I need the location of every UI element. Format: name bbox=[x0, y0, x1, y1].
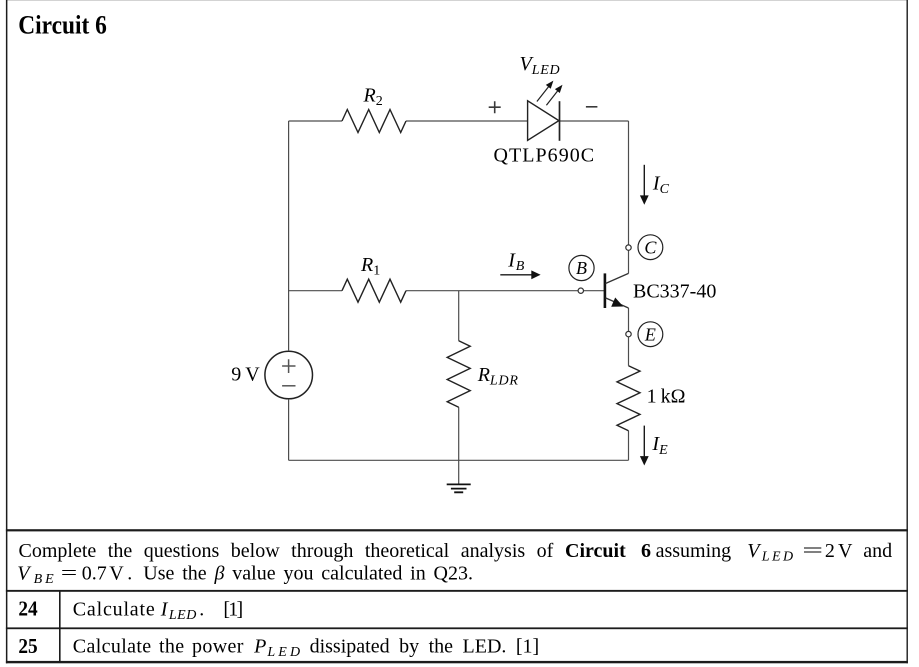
LED plus sign bbox=[489, 101, 501, 113]
wire E node to 1k resistor bbox=[628, 337, 630, 366]
svg-text:R1: R1 bbox=[360, 254, 380, 279]
wire 1k resistor to bottom rail bbox=[628, 431, 630, 461]
current arrow IC bbox=[643, 165, 645, 196]
wire bottom rail bbox=[289, 459, 629, 461]
svg-text:B: B bbox=[576, 258, 587, 278]
svg-text:Complete the questions below t: Complete the questions below through the… bbox=[19, 540, 554, 562]
svg-text:Circuit: Circuit bbox=[565, 540, 626, 562]
transistor emitter arrowhead bbox=[611, 298, 623, 307]
wire emitter to E node bbox=[628, 308, 630, 331]
wire base right of R1 bbox=[406, 290, 578, 292]
svg-text:IB: IB bbox=[507, 249, 524, 274]
wire top rail right of LED bbox=[560, 120, 629, 122]
table top border (faint) bbox=[6, 0, 907, 2]
svg-text:BC337-40: BC337-40 bbox=[633, 280, 716, 302]
svg-text:6: 6 bbox=[641, 540, 651, 562]
svg-text:25: 25 bbox=[18, 634, 37, 658]
LED light arrow 1 bbox=[537, 84, 551, 102]
voltage source V1 circle bbox=[265, 351, 313, 399]
wire collector node to transistor bbox=[628, 250, 630, 273]
table left border bbox=[6, 0, 8, 663]
node label E circled bbox=[638, 322, 663, 347]
svg-text:0.7: 0.7 bbox=[82, 563, 107, 585]
svg-text:VBE: VBE bbox=[17, 563, 57, 588]
svg-text:Circuit 6: Circuit 6 bbox=[18, 11, 107, 40]
svg-text:24: 24 bbox=[18, 596, 38, 620]
resistor R1 bbox=[342, 279, 406, 302]
resistor 1k bbox=[617, 366, 640, 431]
wire left rail upper bbox=[288, 121, 290, 350]
wire ground stub bbox=[458, 460, 460, 484]
LED cathode bar bbox=[559, 101, 561, 141]
svg-text:[1]: [1] bbox=[223, 599, 242, 621]
table rule above paragraph row bbox=[6, 529, 908, 531]
svg-text:QTLP690C: QTLP690C bbox=[494, 145, 595, 167]
svg-text:Calculate: Calculate bbox=[73, 599, 156, 621]
current arrow IB bbox=[500, 274, 532, 276]
wire RLDR branch upper bbox=[458, 291, 460, 341]
wire RLDR branch lower bbox=[458, 407, 460, 460]
current arrow IE bbox=[643, 426, 645, 457]
svg-text:=: = bbox=[61, 563, 78, 585]
svg-text:R2: R2 bbox=[363, 85, 383, 110]
LED light arrow 2 bbox=[546, 87, 560, 105]
node label B circled bbox=[569, 255, 594, 280]
voltage source plus sign bbox=[282, 359, 295, 373]
wire top rail right of R2 bbox=[406, 120, 528, 122]
svg-text:IC: IC bbox=[652, 173, 670, 198]
svg-text:9 V: 9 V bbox=[231, 364, 260, 386]
svg-text:.: . bbox=[199, 599, 204, 621]
svg-text:dissipated by the LED. [1]: dissipated by the LED. [1] bbox=[310, 636, 540, 658]
svg-text:2: 2 bbox=[825, 540, 835, 562]
svg-text:assuming: assuming bbox=[656, 540, 732, 562]
node pin circle E bbox=[626, 331, 631, 336]
wire base from left rail bbox=[289, 290, 342, 292]
svg-text:Use the β value you calculated: Use the β value you calculated in Q23. bbox=[143, 563, 473, 585]
svg-text:=: = bbox=[802, 540, 823, 562]
svg-text:ILED: ILED bbox=[160, 599, 197, 624]
transistor collector lead bbox=[606, 273, 629, 283]
svg-text:E: E bbox=[644, 324, 656, 344]
vertical divider of number column bbox=[59, 591, 61, 662]
voltage source minus sign bbox=[282, 385, 295, 387]
LED D1 triangle bbox=[528, 101, 559, 141]
resistor RLDR bbox=[447, 341, 470, 407]
wire left rail lower bbox=[288, 400, 290, 461]
svg-text:RLDR: RLDR bbox=[477, 364, 519, 389]
svg-text:and: and bbox=[863, 540, 892, 562]
svg-text:V: V bbox=[109, 563, 124, 585]
svg-text:Calculate the power: Calculate the power bbox=[73, 636, 244, 658]
wire base node to transistor bbox=[584, 290, 605, 292]
svg-text:V: V bbox=[838, 540, 853, 562]
table rule between rows 24 and 25 bbox=[6, 627, 908, 629]
ground symbol bbox=[447, 484, 471, 492]
svg-text:VLED: VLED bbox=[520, 53, 561, 78]
node pin circle B bbox=[578, 288, 583, 293]
wire top rail left bbox=[289, 120, 342, 122]
transistor emitter lead bbox=[606, 298, 629, 308]
node pin circle C bbox=[626, 245, 631, 250]
svg-text:.: . bbox=[127, 563, 132, 585]
svg-text:PLED: PLED bbox=[253, 636, 303, 661]
node label C circled bbox=[638, 235, 663, 260]
wire right rail to collector node bbox=[628, 121, 630, 245]
svg-text:C: C bbox=[644, 237, 657, 257]
table bottom border bbox=[6, 661, 908, 663]
resistor R2 bbox=[342, 110, 406, 133]
svg-text:VLED: VLED bbox=[747, 540, 795, 565]
transistor Q1 base bar bbox=[604, 273, 607, 308]
LED minus sign bbox=[586, 106, 598, 108]
svg-text:IE: IE bbox=[651, 433, 668, 458]
svg-text:1 kΩ: 1 kΩ bbox=[647, 386, 686, 408]
table right border bbox=[907, 0, 908, 663]
table rule above row 24 bbox=[6, 590, 908, 592]
